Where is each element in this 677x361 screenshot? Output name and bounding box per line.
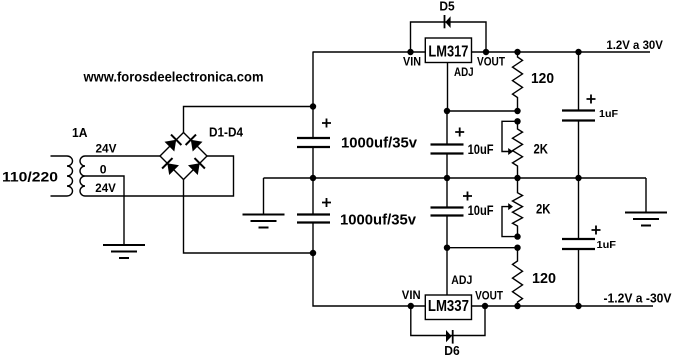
- svg-text:10uF: 10uF: [468, 142, 494, 157]
- svg-text:1.2V a 30V: 1.2V a 30V: [606, 40, 663, 52]
- node junction VOUT-D6: [482, 303, 488, 309]
- node junction C5-mid rail: [575, 175, 581, 181]
- capacitor C6 1uF bottom: [562, 239, 595, 249]
- svg-text:D1-D4: D1-D4: [209, 126, 243, 140]
- node junction R1 top rail: [514, 49, 520, 55]
- polarity + C3: [455, 128, 464, 137]
- polarity + C1: [322, 119, 331, 128]
- node junction P1 top: [514, 118, 520, 124]
- svg-text:10uF: 10uF: [468, 203, 494, 218]
- wire C5 column: [578, 52, 580, 178]
- wire C2 column: [313, 178, 425, 306]
- ground right: [625, 213, 667, 226]
- wire D6 loop: [411, 306, 485, 336]
- regulator U2 LM337 box: [425, 295, 471, 320]
- wire C6 column: [578, 178, 580, 306]
- diode bridge D1-D4 diamond outline: [160, 133, 207, 180]
- polarity + C5: [587, 95, 596, 104]
- svg-text:ADJ: ADJ: [454, 67, 474, 79]
- pot P1 wiper arrow: [508, 148, 513, 155]
- transformer T1 secondary winding: [80, 156, 85, 196]
- polarity + C2: [322, 198, 331, 207]
- pot P2 wiper loop: [502, 207, 518, 237]
- svg-text:24V: 24V: [95, 183, 116, 195]
- node junction ADJ-R2 bottom: [514, 245, 520, 251]
- node junction VOUT-D5: [483, 49, 489, 55]
- capacitor C4 10uF bottom: [431, 208, 464, 216]
- svg-text:VOUT: VOUT: [477, 57, 505, 69]
- svg-text:VOUT: VOUT: [475, 291, 503, 303]
- node junction P1-mid rail: [514, 175, 520, 181]
- wire C3 column: [446, 111, 448, 178]
- diode D5: [445, 16, 450, 28]
- diode D1 (bridge top-left): [165, 140, 177, 152]
- wire secondary top to bridge left vertex: [85, 155, 160, 157]
- diode D2 (bridge top-right): [191, 140, 203, 152]
- svg-text:ADJ: ADJ: [451, 275, 472, 287]
- svg-text:D5: D5: [439, 0, 454, 14]
- capacitor C2 1000uf/35v bottom: [297, 215, 330, 223]
- node junction ADJ-C3: [444, 108, 450, 114]
- transformer T1 primary winding: [51, 156, 73, 196]
- node junction P2 bottom: [514, 233, 520, 239]
- node junction ADJ-C4 bottom: [444, 245, 450, 251]
- node junction C6 bottom rail: [575, 303, 581, 309]
- wire ADJ pin LM317: [447, 63, 449, 112]
- polarity + C4: [463, 192, 472, 201]
- wire mid-left ground stem: [263, 178, 265, 215]
- svg-text:24V: 24V: [96, 144, 117, 156]
- svg-text:www.forosdeelectronica.com: www.forosdeelectronica.com: [83, 69, 264, 85]
- wire C4 column: [446, 178, 448, 248]
- wire top rail right: [472, 51, 651, 53]
- wire bottom rail right: [472, 305, 654, 307]
- resistor R2 120 bottom: [513, 248, 523, 306]
- pot P2 wiper arrow: [508, 203, 513, 210]
- svg-text:VIN: VIN: [402, 290, 421, 302]
- node junction VIN-D5: [407, 49, 413, 55]
- node junction C3-mid rail: [444, 175, 450, 181]
- node junction ADJ-R1: [514, 108, 520, 114]
- diode D3 (bridge bottom-left): [167, 163, 179, 175]
- svg-text:2K: 2K: [536, 202, 551, 217]
- wire D5 loop: [411, 22, 487, 52]
- wire bridge positive output: [184, 107, 314, 133]
- svg-text:120: 120: [531, 71, 554, 87]
- resistor R1 120 top: [513, 52, 523, 111]
- regulator U1 LM317 box: [425, 38, 471, 63]
- wire top rail left: [313, 51, 426, 53]
- wire C1 column: [312, 52, 314, 178]
- capacitor C3 10uF top: [431, 145, 464, 154]
- ground mid-left: [243, 215, 285, 228]
- node junction C5 top rail: [575, 49, 581, 55]
- wire right ground stem: [645, 178, 647, 213]
- node junction C1-mid rail: [310, 175, 316, 181]
- svg-text:1000uf/35v: 1000uf/35v: [340, 212, 416, 228]
- polarity + C6: [592, 226, 601, 235]
- diode D4 (bridge bottom-right): [188, 163, 200, 175]
- node junction VIN-D6: [408, 303, 414, 309]
- svg-text:1A: 1A: [72, 125, 88, 140]
- svg-text:110/220: 110/220: [2, 170, 58, 185]
- wire ADJ node bottom: [447, 247, 518, 249]
- svg-text:LM317: LM317: [428, 43, 468, 60]
- svg-text:D6: D6: [444, 344, 459, 358]
- capacitor C1 1000uf/35v top: [297, 138, 330, 147]
- potentiometer P1 2K top: [513, 121, 523, 178]
- capacitor C5 1uF top: [562, 111, 595, 121]
- wire mid ground rail: [264, 177, 647, 179]
- wire center tap: [85, 176, 124, 245]
- svg-text:0: 0: [100, 164, 107, 176]
- svg-text:VIN: VIN: [403, 57, 421, 69]
- svg-text:1uF: 1uF: [599, 108, 619, 120]
- node junction R2 bottom rail: [514, 303, 520, 309]
- wire ADJ pin LM337: [446, 248, 448, 295]
- svg-text:LM337: LM337: [428, 298, 469, 315]
- pot P1 wiper loop: [502, 121, 518, 151]
- svg-text:1uF: 1uF: [597, 239, 617, 251]
- wire ADJ node to R1/P1 junction: [447, 110, 518, 112]
- ground center tap: [103, 245, 145, 258]
- svg-text:2K: 2K: [534, 142, 549, 157]
- node junction bridge+ to C1: [310, 103, 316, 109]
- wire secondary bottom: [85, 156, 234, 196]
- wire bridge negative output: [184, 180, 314, 254]
- svg-text:1000uf/35v: 1000uf/35v: [341, 135, 417, 151]
- potentiometer P2 2K bottom: [513, 178, 523, 237]
- node junction bridge- to C2: [310, 250, 316, 256]
- diode D6: [446, 330, 452, 342]
- svg-text:120: 120: [532, 271, 556, 287]
- svg-text:-1.2V a -30V: -1.2V a -30V: [604, 291, 673, 305]
